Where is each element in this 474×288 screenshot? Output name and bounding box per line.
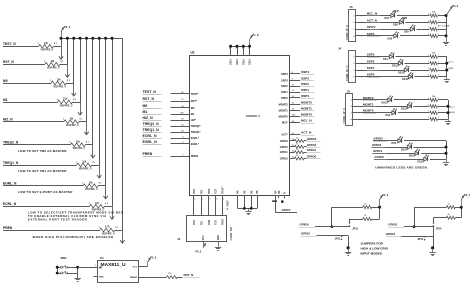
net ACT_N LED row [361,17,447,27]
svg-text:ECRL_N: ECRL_N [143,134,157,138]
svg-text:VCC: VCC [202,235,205,240]
svg-text:2: 2 [428,98,429,100]
svg-text:6: 6 [248,48,249,50]
svg-text:M0: M0 [191,106,195,110]
svg-text:ECRL_N: ECRL_N [3,202,17,206]
svg-text:DS5: DS5 [392,142,397,145]
svg-text:WHEN HIGH PULLDOWN(UP) AR: WHEN HIGH PULLDOWN(UP) ARE ENABLED [33,235,115,239]
svg-text:MONT2: MONT2 [279,103,289,107]
port arrow below RST_N [65,64,69,77]
ground J5 rail [443,36,449,46]
IC bottom VB pins tie [237,190,260,209]
svg-text:HIZ_N: HIZ_N [3,118,13,122]
svg-text:HIZ_N: HIZ_N [143,116,154,120]
svg-text:2: 2 [428,61,429,63]
IC pin SSP2 (SSP2) [281,82,314,88]
svg-text:6: 6 [242,48,243,50]
svg-text:JP13: JP13 [417,238,423,241]
svg-text:5: 5 [223,199,224,201]
svg-text:M1: M1 [191,112,195,116]
rail J4 LEDs [445,57,448,77]
svg-text:MONT0: MONT0 [363,109,374,113]
svg-text:SSP2: SSP2 [301,82,309,86]
svg-text:5: 5 [209,199,210,201]
svg-text:R: R [284,192,287,194]
rail J5 LEDs [445,14,448,37]
svg-text:VB: VB [244,190,247,194]
svg-text:GPIO1: GPIO1 [388,223,398,227]
wire JP13 to rail [402,237,435,250]
svg-text:TREQ2_N: TREQ2_N [3,141,19,145]
net RST_N pull-up wire and resistor [3,60,67,70]
connector J4 pin 2 [353,63,362,65]
caption TM1 [18,169,67,173]
connector J4 refdes [338,46,342,50]
wire corner GPIO0 [331,207,334,228]
svg-text:WSP4RE_U: WSP4RE_U [41,49,54,52]
IC pin ACT* (ACT_N) [281,131,314,137]
svg-text:GPIO3: GPIO3 [386,232,396,236]
svg-text:GPIO2: GPIO2 [280,145,288,149]
net GPIO1 wire [388,223,433,228]
net SSP1 LED row [361,66,447,75]
svg-text:2: 2 [428,68,429,70]
power symbol P3_3 pullup bus [61,25,71,38]
svg-text:WSP4RE_U: WSP4RE_U [79,167,92,170]
resistor R21 (GPIO2 pull-up) [350,215,380,220]
net GPIO0 wire [299,222,349,227]
IC top supply pins DVDD [229,45,252,65]
svg-text:M1: M1 [143,110,148,114]
svg-text:2: 2 [428,14,429,16]
IC pin GPIO1 (GPIO1) [280,148,321,154]
svg-text:MONT0: MONT0 [279,115,289,119]
caption jumpers line2 [361,246,389,250]
svg-text:1: 1 [438,104,439,106]
svg-text:TDO: TDO [193,189,196,194]
port arrow below M0 [72,83,76,96]
IC pin MCI* (MCL_N) [282,119,315,125]
svg-text:TMS: TMS [208,188,211,194]
net label P3_3_DSW J3 [450,107,456,114]
wire corner GPIO1 [413,207,416,228]
svg-text:EGRL_N: EGRL_N [3,182,17,186]
svg-text:RESET: RESET [130,277,138,279]
svg-text:2: 2 [428,55,429,57]
svg-text:5: 5 [216,199,217,201]
IC pin EGRL* (EGRL_N) [143,140,200,146]
rail GPIO LEDs [445,141,448,159]
svg-text:2: 2 [428,20,429,22]
svg-text:VB: VB [250,190,253,194]
IC U1 pin VCC [133,266,148,268]
svg-text:ACT*: ACT* [281,133,287,137]
svg-text:SSP4: SSP4 [281,72,288,76]
IC pin GPIO2 (GPIO2) [280,143,321,149]
svg-text:GPIO3: GPIO3 [374,137,384,141]
svg-text:DSW: DSW [450,112,455,114]
svg-text:PREN: PREN [3,226,13,230]
IC U1 body [98,261,139,283]
svg-text:PREN: PREN [191,154,198,158]
svg-text:GPIO0: GPIO0 [280,156,288,160]
svg-text:GND: GND [99,277,104,279]
switch SW1 pushbutton [56,265,79,278]
IC U2 refdes [191,51,195,55]
svg-text:P3_3: P3_3 [196,251,202,254]
svg-text:DDA: DDA [248,59,252,65]
connector J5 pin 4 [353,35,362,38]
svg-text:SSP2: SSP2 [281,84,288,88]
svg-text:MONT1: MONT1 [279,108,289,112]
svg-text:2: 2 [428,111,429,113]
wire junction EGRL_N to bus [104,37,107,186]
ground left jumpers [345,248,351,256]
net SSP2 LED row [361,59,447,68]
caption PREN [33,235,115,239]
connector J1 pin labels [193,218,225,240]
caption unmarked leds [375,166,427,170]
svg-text:DS9: DS9 [386,114,391,117]
resistor R23 (GPIO3 pull-up) [433,214,461,219]
svg-text:1: 1 [438,68,439,70]
IC pin HIZ* (HIZ_N) [143,116,196,122]
svg-text:RST_N: RST_N [3,60,14,64]
IC bottom JTAG pins [193,186,225,215]
svg-text:SSP0: SSP0 [301,94,309,98]
svg-text:SSP4: SSP4 [301,70,309,74]
svg-text:DS4: DS4 [383,58,388,61]
svg-text:JP12: JP12 [352,227,358,230]
svg-text:1: 1 [438,34,439,36]
svg-text:DS13: DS13 [398,71,405,74]
svg-text:J5: J5 [350,5,354,9]
svg-text:1: 1 [438,111,439,113]
svg-text:GPIO1: GPIO1 [280,150,288,154]
svg-text:DDA: DDA [241,59,245,65]
ground GPIO rail [443,159,449,165]
svg-text:LOW TO SET TM1 AS MASTER: LOW TO SET TM1 AS MASTER [18,169,67,173]
IC pin SSP4 (SSP4) [281,70,314,76]
svg-text:MONT2: MONT2 [363,96,374,100]
svg-text:WSP4RE_U: WSP4RE_U [66,124,79,127]
net MONT1 LED row [358,102,448,111]
svg-text:JP11: JP11 [335,238,341,241]
svg-text:J1: J1 [177,237,181,241]
jumper JP14 [434,218,443,231]
svg-text:SSP3: SSP3 [301,76,309,80]
wire rail left jumpers [378,206,381,219]
svg-text:TCK: TCK [215,220,218,225]
port arrow below TREQ2_N [91,145,95,158]
svg-text:TEST_N: TEST_N [3,42,16,46]
svg-text:SSP3: SSP3 [281,78,288,82]
net MONT2 LED row [358,96,448,105]
net M1 pull-up wire and resistor [3,98,80,108]
svg-text:GPOV: GPOV [367,25,376,29]
svg-text:JUMPERS FOR: JUMPERS FOR [361,241,384,245]
caption ECRL line2 [28,214,107,218]
svg-text:DS16: DS16 [409,155,416,158]
svg-text:SSP3: SSP3 [367,53,375,57]
svg-text:4.7k: 4.7k [105,226,110,229]
svg-text:WSP4RE_U: WSP4RE_U [60,104,73,107]
connector J3 refdes [347,90,351,94]
svg-text:U1: U1 [100,256,104,260]
svg-text:VB: VB [237,190,240,194]
connector J3 type [342,108,346,124]
svg-text:1: 1 [438,61,439,63]
svg-text:M0: M0 [143,104,148,108]
power symbol P1_8 IC top [248,33,259,48]
svg-text:XR: XR [278,190,281,194]
IC pin TREQ2* (TREQ2_N) [143,122,201,128]
svg-text:TEST_N: TEST_N [143,90,157,94]
connector J4 body [349,51,356,83]
net GPIO0 LED row [374,155,446,164]
svg-text:2: 2 [428,75,429,77]
svg-text:J3: J3 [347,90,351,94]
rail J3 LEDs [447,100,450,119]
IC pin M0 (M0) [143,104,195,110]
svg-text:2: 2 [428,117,429,119]
net SSP0 LED row [361,73,447,82]
svg-text:GPIO2: GPIO2 [301,231,311,235]
svg-text:P3_3: P3_3 [382,194,388,197]
svg-text:TRST*: TRST* [222,186,225,194]
svg-text:GPIO3: GPIO3 [280,139,288,143]
svg-text:UNMARKED LEDS ARE GREEN: UNMARKED LEDS ARE GREEN [375,166,427,170]
connector J5 refdes [350,5,354,9]
connector J5 pin 1 [353,15,362,17]
svg-text:5: 5 [194,199,195,201]
svg-text:WSP4RE_U: WSP4RE_U [73,147,86,150]
svg-text:6: 6 [236,48,237,50]
svg-text:EGRL*: EGRL* [191,142,199,146]
svg-text:P3_3: P3_3 [64,25,71,29]
IC pin TREQ1* (TREQ1_N) [143,128,201,134]
svg-text:DDA: DDA [229,59,233,65]
svg-text:WSP4RE_U: WSP4RE_U [47,67,60,70]
ground SW1 [75,279,81,282]
svg-text:CONN_4P_U: CONN_4P_U [345,25,349,41]
IC pin RST* (RST_N) [143,97,198,103]
IC pin PREN (PREN) [143,152,199,158]
wire junction TREQ2_N to bus [91,37,94,145]
svg-text:MONT0: MONT0 [301,113,312,117]
svg-text:1: 1 [438,75,439,77]
caption jumpers line3 [361,251,383,255]
svg-text:SSP1: SSP1 [367,66,375,70]
svg-text:MONT1: MONT1 [301,106,312,110]
svg-text:TEST*: TEST* [191,92,199,96]
wire J3 pin4 [358,119,448,121]
connector J4 pin 3 [353,70,362,72]
svg-text:TDI: TDI [200,221,203,225]
svg-text:WSP4RE_U: WSP4RE_U [53,85,66,88]
connector J3 body [346,94,353,126]
port arrow below TREQ1_N [97,165,101,178]
net MCL_N LED row [361,10,447,20]
resistor pack RN2 [428,12,439,39]
svg-text:TREQ2_N: TREQ2_N [143,122,160,126]
svg-text:GPIO0: GPIO0 [375,155,385,159]
connector J4 pin 4 [353,76,362,79]
IC U1 pin GND [94,277,104,279]
svg-text:RST_N: RST_N [143,97,155,101]
svg-text:GPIO2: GPIO2 [372,143,382,147]
svg-text:MONT2: MONT2 [301,101,312,105]
connector J3 pin 3 [351,113,360,115]
connector J3 pin 2 [351,106,360,108]
wire junction HIZ_N to bus [85,37,88,122]
IC bottom XR pins / net GPOV [272,190,297,212]
svg-text:M1: M1 [3,98,8,102]
svg-text:MCI*: MCI* [282,121,288,125]
svg-text:ACT_N: ACT_N [367,18,377,22]
wire P3_3 pullup bus [61,38,122,40]
port arrow below PREN [120,230,124,243]
svg-text:RST_N: RST_N [184,273,194,277]
IC pin MONT1 (MONT1) [279,106,315,112]
svg-text:DSW: DSW [449,68,454,70]
svg-text:2: 2 [428,104,429,106]
jumper JP11 [335,236,342,241]
svg-text:6: 6 [229,48,230,50]
ground VB tie [245,208,251,214]
svg-text:1: 1 [438,20,439,22]
power symbol P3_3 J5 rail [446,5,459,15]
svg-text:DS14: DS14 [401,148,408,151]
connector J3 pin 4 [351,118,360,121]
wire junction M1 to bus [79,37,82,102]
net ECRL_N pull-up wire and resistor [3,202,112,212]
ground J4 rail [444,77,450,83]
IC U1 pin RESET to RST_N [130,273,199,279]
IC U2 DS26528 body [190,56,290,196]
net M0 pull-up wire and resistor [3,79,74,89]
wire junction RST_N to bus [66,37,69,65]
svg-text:MCL_N: MCL_N [367,12,377,16]
power symbol P3_3 right jumpers [461,194,470,207]
svg-text:ECRL*: ECRL* [191,136,199,140]
ground right jumpers [429,248,435,256]
svg-text:P3_3_DSW: P3_3_DSW [438,25,450,27]
port arrow below ECRL_N [110,206,114,219]
IC U1 refdes [100,256,104,260]
net label P3_3_DSW J4 [449,61,455,70]
svg-text:U2: U2 [191,51,195,55]
svg-text:INPUT MODES: INPUT MODES [361,251,383,255]
IC pin SSP0 (SSP0) [281,94,314,100]
net TREQ2_N pull-up wire and resistor [3,141,93,151]
connector J5 pin 3 [353,29,362,31]
svg-text:CONN_14P: CONN_14P [229,227,233,241]
svg-text:HIZ*: HIZ* [191,118,196,122]
svg-text:GPOV: GPOV [282,208,292,212]
svg-text:SSP0: SSP0 [281,96,288,100]
wire JP14 rail [433,227,435,248]
svg-text:TREQ1_N: TREQ1_N [143,128,160,132]
net PREN pull-up wire and resistor [3,226,122,236]
svg-text:VB: VB [256,190,259,194]
IC pin SSP3 (SSP3) [281,76,314,82]
svg-text:P3_3: P3_3 [150,257,156,260]
svg-text:GPIO0: GPIO0 [299,222,309,226]
connector J1 refdes [177,237,181,241]
svg-text:P1_8: P1_8 [252,33,259,37]
svg-text:SSP2: SSP2 [367,59,375,63]
svg-text:MONT1: MONT1 [363,102,374,106]
svg-text:1: 1 [438,27,439,29]
svg-text:GPIO1: GPIO1 [307,148,317,152]
net GPOV LED row [361,25,447,34]
svg-text:DS11: DS11 [392,65,399,68]
connector J4 pin 1 [353,56,362,58]
caption E-PORT [18,190,73,194]
svg-text:VCC: VCC [133,266,138,268]
net EGRL_N pull-up wire and resistor [3,182,106,192]
jumper JP12 [350,219,359,230]
svg-text:SSP1: SSP1 [281,90,288,94]
svg-text:DS9: DS9 [404,31,409,34]
svg-text:DS26528_U: DS26528_U [246,114,260,118]
svg-text:DS12: DS12 [402,78,409,81]
svg-text:TDI: TDI [200,190,203,194]
wire junction TEST_N to bus [60,37,63,47]
IC pin TEST* (TEST_N) [143,90,199,96]
IC U2 value [246,114,260,118]
power symbol P3_3 U1 [148,257,157,267]
net HIZ_N pull-up wire and resistor [3,118,87,128]
caption ECRL line1 [28,210,124,214]
svg-text:TREQ1*: TREQ1* [191,130,201,134]
svg-text:EGRL_N: EGRL_N [143,140,158,144]
svg-text:GND: GND [217,235,220,241]
net SSP3 LED row [361,52,447,61]
svg-text:TCK: TCK [215,189,218,194]
resistor R22 (GPIO1 pull-up) [414,203,461,208]
svg-text:CONN_4P_U: CONN_4P_U [345,66,349,82]
svg-text:GPIO2: GPIO2 [307,143,317,147]
connector J5 pin 2 [353,22,362,24]
caption jumpers line1 [361,241,384,245]
wire junction ECRL_N to bus [111,37,114,207]
caption TM2 [18,149,67,153]
connector J3 pin 1 [351,100,360,102]
net SSP4 LED row [361,32,447,41]
resistor pack RN4 [428,96,439,121]
svg-text:J4: J4 [338,46,342,50]
power symbol P3_3 left jumpers [380,194,389,207]
resistor pack RN3 [428,53,439,79]
ground J1 [215,242,221,251]
svg-text:TREQ1_N: TREQ1_N [3,161,19,165]
port arrow below M1 [78,102,82,115]
net TEST_N pull-up wire and resistor [3,42,61,52]
net label P3_3_DSW [438,25,450,27]
port arrow below HIZ_N [84,122,88,135]
IC pin MONT2 (MONT2) [279,101,315,107]
svg-text:DS7: DS7 [385,17,390,20]
svg-text:ACT_N: ACT_N [301,131,312,135]
svg-text:DS13: DS13 [401,108,408,111]
svg-text:5: 5 [202,199,203,201]
svg-text:TMS: TMS [208,220,211,225]
IC U1 pin MR [94,265,102,269]
net GPIO3 LED row [373,137,446,146]
IC pin GPIO3 (GPIO3) [280,137,321,143]
